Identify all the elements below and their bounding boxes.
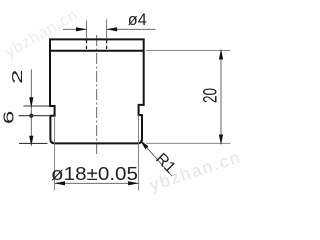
svg-text:2: 2 [9, 70, 26, 85]
dim 2/6 junction dot [29, 114, 33, 118]
dim 20 extension line bottom [146, 142, 231, 144]
dim 6 extension line (part bottom) [19, 142, 48, 144]
dim phi4 dimension line left segment with arrow [63, 27, 87, 31]
svg-text:6: 6 [1, 111, 18, 124]
dim 6 extension line (groove bottom) [19, 115, 51, 117]
top plate underside edge [50, 50, 144, 52]
dim 6 arrow [29, 136, 33, 147]
part outline: cup silhouette with side groove and R1 bottom fillets [50, 39, 144, 143]
hole hidden line right [106, 40, 108, 51]
centerline (part axis) [96, 35, 98, 157]
dim phi4 extension line right [106, 20, 108, 40]
dim 2 arrow [29, 97, 33, 108]
dim R1 leader line with arrow [140, 140, 172, 176]
svg-text:ø18±0.05: ø18±0.05 [51, 163, 138, 184]
dim phi4 extension line left [86, 21, 88, 40]
dim 2/6 shared dimension line [30, 70, 32, 144]
dim 2 extension line (groove top) [24, 105, 51, 107]
dim 20 dimension line with arrows [219, 49, 223, 146]
svg-text:20: 20 [200, 88, 222, 103]
svg-text:ø4: ø4 [128, 11, 147, 29]
dim phi4 dimension line right segment with arrow [106, 27, 155, 31]
dim phi18 extension line left [54, 116, 56, 191]
hole hidden line left [86, 40, 88, 51]
dim 20 extension line top [146, 50, 231, 52]
dim phi18 extension line right [138, 115, 140, 190]
dim phi18 dimension line with arrows [54, 181, 139, 185]
